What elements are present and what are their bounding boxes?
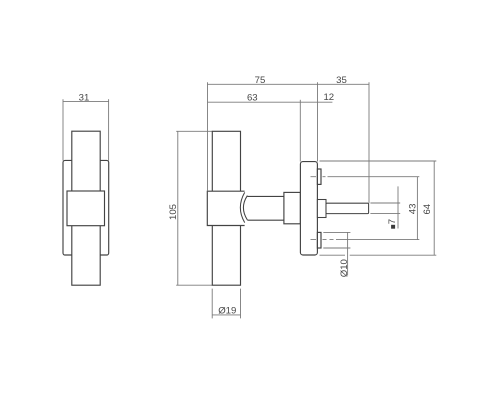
dim 105 top extension: [176, 130, 212, 132]
svg-text:35: 35: [336, 75, 347, 86]
side grip bar: [212, 131, 240, 285]
dim 31 right extension: [108, 99, 110, 160]
spindle boss: [317, 200, 326, 218]
stem top line: [247, 195, 300, 197]
bottom screw tab: [317, 232, 321, 248]
dim 7 bottom extension: [370, 212, 400, 214]
top hole centerline dashes: [311, 176, 326, 178]
dim 63/12 line: [208, 101, 333, 103]
spindle bar: [326, 203, 369, 213]
side rosette: [300, 162, 317, 255]
svg-text:43: 43: [408, 204, 419, 215]
extension line at rosette back: [299, 100, 301, 162]
side connector block fill: [207, 191, 244, 225]
svg-text:12: 12: [323, 92, 334, 103]
side connector block outline: [207, 191, 244, 225]
dim 43 line: [416, 177, 418, 240]
dim 64 bottom extension: [320, 254, 437, 256]
dim 64 top extension: [320, 160, 437, 162]
front grip tube: [72, 131, 100, 285]
dim 7 top extension: [370, 202, 400, 204]
svg-text:Ø19: Ø19: [218, 306, 236, 317]
dim 105 bottom extension: [176, 284, 212, 286]
dim 7 square symbol: [391, 225, 395, 229]
dim 64 line: [433, 161, 435, 255]
neck outer arc: [240, 192, 244, 222]
dim 7 line: [397, 186, 399, 228]
front connector block: [67, 191, 105, 226]
stem bottom line: [247, 219, 300, 221]
top screw tab: [317, 169, 321, 184]
stem collar: [284, 192, 301, 223]
svg-text:105: 105: [168, 204, 179, 220]
dim 75/35 line: [208, 83, 370, 85]
svg-text:7: 7: [387, 219, 398, 224]
neck inner arc: [243, 196, 247, 220]
dim d10 bottom extension: [323, 247, 350, 249]
dim d19 line: [212, 314, 240, 316]
extension line at rosette front: [317, 82, 319, 161]
extension line at spindle tip: [368, 82, 370, 203]
dim d19 left extension: [211, 289, 213, 319]
svg-text:63: 63: [247, 92, 258, 103]
svg-text:75: 75: [255, 75, 266, 86]
dim 31 left extension: [62, 99, 64, 160]
dim 31 line: [63, 101, 109, 103]
svg-text:Ø10: Ø10: [339, 259, 350, 277]
dim 43 top extension: [328, 176, 420, 178]
dim 43 bottom extension: [336, 239, 419, 241]
dim d10 top extension: [323, 231, 350, 233]
bottom hole centerline dashes: [311, 239, 334, 241]
dim d19 right extension: [240, 289, 242, 319]
dim d10 line: [347, 232, 349, 275]
svg-text:64: 64: [422, 203, 433, 214]
dim 105 line: [177, 131, 179, 285]
extension line at handle face: [207, 82, 209, 191]
front rosette plate: [63, 160, 109, 255]
